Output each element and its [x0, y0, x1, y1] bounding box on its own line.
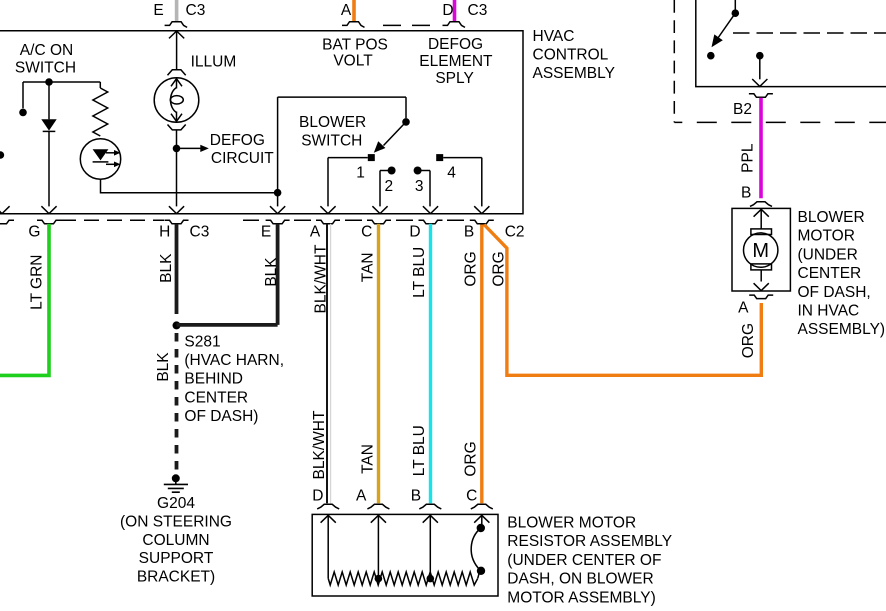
wire LT BLU pin D [429, 224, 432, 504]
wire BLK splice to pin E [177, 224, 278, 325]
arrow resistor pin C [474, 515, 489, 522]
LED bar [93, 161, 109, 163]
connector strip dashes bottom [61, 219, 164, 221]
bulb inner top arrow [171, 79, 182, 89]
arrow pin G [41, 206, 56, 213]
svg-text:BAT POS: BAT POS [322, 36, 388, 53]
arrow pin B [474, 206, 489, 213]
diode wire lower to pin G [48, 131, 50, 206]
svg-text:ILLUM: ILLUM [191, 53, 237, 70]
arrow pin C [372, 206, 387, 213]
svg-text:A: A [341, 2, 352, 19]
diode wire upper [48, 82, 50, 119]
svg-text:SUPPORT: SUPPORT [139, 550, 214, 567]
svg-text:ORG: ORG [491, 251, 508, 286]
svg-text:SWITCH: SWITCH [301, 133, 362, 150]
svg-text:(UNDER: (UNDER [798, 246, 858, 263]
svg-text:C3: C3 [186, 2, 206, 19]
resistor internal wires [328, 515, 482, 578]
svg-text:D: D [312, 488, 323, 505]
connector hat pin B motor [750, 202, 772, 207]
svg-text:H: H [159, 223, 170, 240]
svg-text:BRACKET): BRACKET) [137, 569, 215, 586]
svg-text:BLOWER: BLOWER [299, 114, 366, 131]
resistor element zigzag [328, 572, 477, 585]
blower motor resistor assembly box [312, 514, 498, 596]
svg-text:LT BLU: LT BLU [411, 425, 428, 476]
svg-text:BLK/WHT: BLK/WHT [311, 410, 328, 479]
ground G204 dot [172, 474, 180, 482]
LED triangle [93, 149, 109, 160]
connector hats bottom row [0, 220, 14, 224]
svg-text:OF DASH): OF DASH) [184, 408, 258, 425]
splice S281 dot [173, 321, 181, 329]
blower switch wiper arrowhead [374, 141, 386, 153]
svg-text:DEFOG: DEFOG [428, 36, 483, 53]
svg-text:COLUMN: COLUMN [142, 532, 209, 549]
svg-text:SPLY: SPLY [435, 70, 474, 87]
svg-text:B: B [411, 488, 421, 505]
contact 1 square [368, 154, 375, 161]
svg-text:G: G [28, 223, 40, 240]
svg-text:C: C [466, 488, 477, 505]
bulb hat top [168, 70, 186, 75]
svg-text:D: D [409, 223, 420, 240]
wire BLK/WHT pin A [326, 224, 328, 504]
svg-text:TAN: TAN [359, 444, 376, 474]
svg-text:(HVAC HARN,: (HVAC HARN, [184, 352, 284, 369]
ground G204 symbol [164, 478, 188, 492]
svg-text:BLOWER: BLOWER [798, 209, 865, 226]
svg-text:SWITCH: SWITCH [15, 60, 76, 77]
wire to defog circuit [177, 147, 201, 149]
junction dot defog branch [173, 145, 181, 153]
svg-text:MOTOR ASSEMBLY): MOTOR ASSEMBLY) [507, 589, 655, 606]
thermal limiter arc [471, 528, 481, 578]
svg-text:MOTOR: MOTOR [798, 228, 855, 245]
motor brush bottom [751, 264, 772, 270]
svg-text:ELEMENT: ELEMENT [419, 53, 493, 70]
svg-text:B: B [464, 223, 474, 240]
wire PPL B2 to B [759, 98, 763, 199]
svg-text:A: A [310, 223, 321, 240]
A/C switch contact dot [19, 109, 27, 117]
blower switch feed rail [278, 97, 406, 118]
wire BLK dashed to ground [175, 333, 179, 470]
svg-text:BLOWER MOTOR: BLOWER MOTOR [507, 515, 636, 532]
svg-text:BLK: BLK [155, 352, 172, 382]
svg-text:BEHIND: BEHIND [184, 371, 243, 388]
svg-text:A/C ON: A/C ON [20, 42, 73, 59]
svg-text:ORG: ORG [462, 251, 479, 286]
arrow pin E bottom [270, 206, 285, 213]
resistor R1 zigzag [93, 88, 108, 136]
svg-text:ASSEMBLY: ASSEMBLY [533, 65, 615, 82]
arrow motor pin B [754, 209, 769, 216]
svg-text:ORG: ORG [740, 323, 757, 358]
ILLUM bulb circle [154, 78, 199, 123]
motor internal wire top [760, 209, 762, 229]
arrow motor pin A [754, 283, 769, 290]
HVAC control assembly box [0, 31, 523, 214]
bulb filament [171, 88, 177, 113]
bulb hat bottom [168, 125, 186, 130]
blower motor box [732, 208, 790, 291]
connector strip dashes top [383, 24, 430, 26]
junction dot A/C feed [45, 78, 53, 86]
svg-text:D: D [442, 2, 453, 19]
wire A top (ORG) [352, 0, 356, 22]
svg-text:C3: C3 [190, 223, 210, 240]
wire from pin E to ILLUM bulb [176, 31, 178, 70]
svg-text:M: M [752, 240, 769, 262]
LED emission arrow 1 [106, 152, 115, 154]
relay switch pivot dot [732, 9, 740, 17]
svg-text:ASSEMBLY): ASSEMBLY) [798, 321, 886, 338]
relay inner dashed line [733, 32, 886, 34]
svg-text:E: E [261, 223, 271, 240]
A/C switch wiper dot (edge) [0, 151, 4, 159]
contact 2 dot [388, 167, 396, 175]
svg-text:LT GRN: LT GRN [29, 254, 46, 309]
svg-text:CONTROL: CONTROL [533, 46, 609, 63]
diode D1 triangle [41, 119, 56, 130]
arrow pin E into box [169, 31, 184, 38]
svg-text:C3: C3 [468, 2, 488, 19]
svg-text:CIRCUIT: CIRCUIT [211, 150, 274, 167]
motor M circle [744, 233, 778, 267]
svg-text:2: 2 [384, 178, 393, 195]
svg-text:RESISTOR ASSEMBLY: RESISTOR ASSEMBLY [507, 533, 672, 550]
arrow pin left edge [0, 206, 10, 213]
blower switch pivot dot [402, 118, 410, 126]
relay switch wiper arrowhead [712, 34, 723, 47]
wire resistor top [99, 82, 101, 88]
connector hats resistor assembly [317, 504, 339, 509]
wire relay output to pin B2 [759, 56, 761, 80]
wire D C3 top (PNK) [453, 0, 457, 22]
wire contact 4 to pin B [443, 158, 482, 207]
arrow pin H [169, 206, 184, 213]
arrow resistor pin B [423, 515, 438, 522]
svg-text:DEFOG: DEFOG [210, 132, 265, 149]
arrow pin A [320, 206, 335, 213]
contact 4 square [436, 154, 443, 161]
svg-text:S281: S281 [184, 333, 220, 350]
relay output dot [756, 52, 764, 60]
svg-text:PPL: PPL [740, 143, 757, 173]
svg-text:CENTER: CENTER [798, 265, 862, 282]
relay switch wire top [734, 0, 736, 10]
bulb filament loop [170, 96, 183, 104]
arrow resistor pin A [371, 515, 386, 522]
connector hat pin E C3 top [165, 22, 188, 28]
thermal limiter dots [477, 524, 485, 532]
LED emission arrow 2 [106, 163, 115, 165]
svg-text:OF DASH,: OF DASH, [798, 284, 871, 301]
wire contact 3 to pin D [418, 171, 430, 207]
wire LT GRN pin G [0, 224, 49, 376]
junction dot switch common [274, 189, 282, 197]
wire BLK pin H [175, 224, 179, 314]
svg-text:E: E [153, 2, 163, 19]
svg-text:(UNDER CENTER OF: (UNDER CENTER OF [507, 552, 661, 569]
svg-text:VOLT: VOLT [333, 52, 373, 69]
wire contact 1 to pin A [328, 158, 368, 207]
wire E C3 top (GRY) [175, 0, 179, 22]
svg-text:C2: C2 [505, 223, 525, 240]
svg-text:DASH, ON BLOWER: DASH, ON BLOWER [507, 571, 653, 588]
svg-text:3: 3 [415, 178, 424, 195]
arrow pin B2 [752, 79, 767, 86]
A/C switch contact stub [22, 82, 24, 108]
LED circle [80, 139, 120, 179]
arrow pin D [423, 206, 438, 213]
wire TAN pin C [377, 224, 380, 504]
svg-text:CENTER: CENTER [184, 389, 248, 406]
svg-text:ORG: ORG [462, 441, 479, 476]
svg-text:4: 4 [447, 165, 456, 182]
svg-text:(ON STEERING: (ON STEERING [120, 513, 232, 530]
wire bulb to pin H [176, 130, 178, 207]
A/C switch feed wire [23, 81, 100, 83]
contact 3 dot [414, 167, 422, 175]
svg-text:1: 1 [356, 165, 365, 182]
connector hat pin D C3 top [443, 22, 466, 28]
connector hat pin A top [342, 22, 365, 28]
svg-text:B2: B2 [733, 101, 752, 118]
switch common wire to pin E [277, 97, 279, 206]
svg-text:BLK: BLK [158, 253, 175, 283]
blower switch wiper [384, 122, 407, 146]
connector hat pin B2 [749, 94, 773, 98]
svg-text:A: A [356, 488, 367, 505]
diode D1 bar [43, 130, 56, 132]
wire contact 2 to pin C [380, 171, 392, 207]
arrow resistor pin D [321, 515, 336, 522]
resistor junction dots [375, 575, 383, 583]
svg-text:A: A [738, 299, 749, 316]
relay switch wiper [716, 13, 736, 41]
wire ORG pin B down [480, 225, 483, 504]
wire LED bottom to switch common [101, 179, 278, 193]
connector hat pin A motor [749, 295, 773, 299]
svg-text:C: C [361, 223, 372, 240]
motor brush top [751, 229, 772, 235]
svg-text:B: B [741, 185, 751, 202]
relay switch contact dot [707, 52, 715, 60]
defog circuit pointer arrowhead [200, 145, 209, 152]
motor internal wire bottom [760, 270, 762, 282]
svg-text:G204: G204 [157, 495, 195, 512]
svg-text:BLK/WHT: BLK/WHT [312, 244, 329, 313]
wire ORG pin B to blower motor [484, 225, 761, 376]
relay inner solid box [696, 0, 886, 87]
svg-text:HVAC: HVAC [533, 28, 575, 45]
svg-text:LT BLU: LT BLU [411, 247, 428, 298]
svg-text:TAN: TAN [359, 252, 376, 282]
svg-text:IN HVAC: IN HVAC [798, 303, 860, 320]
svg-text:BLK: BLK [263, 257, 280, 287]
bulb inner bottom arrow [171, 112, 182, 122]
defrost relay dashed box [673, 0, 675, 122]
